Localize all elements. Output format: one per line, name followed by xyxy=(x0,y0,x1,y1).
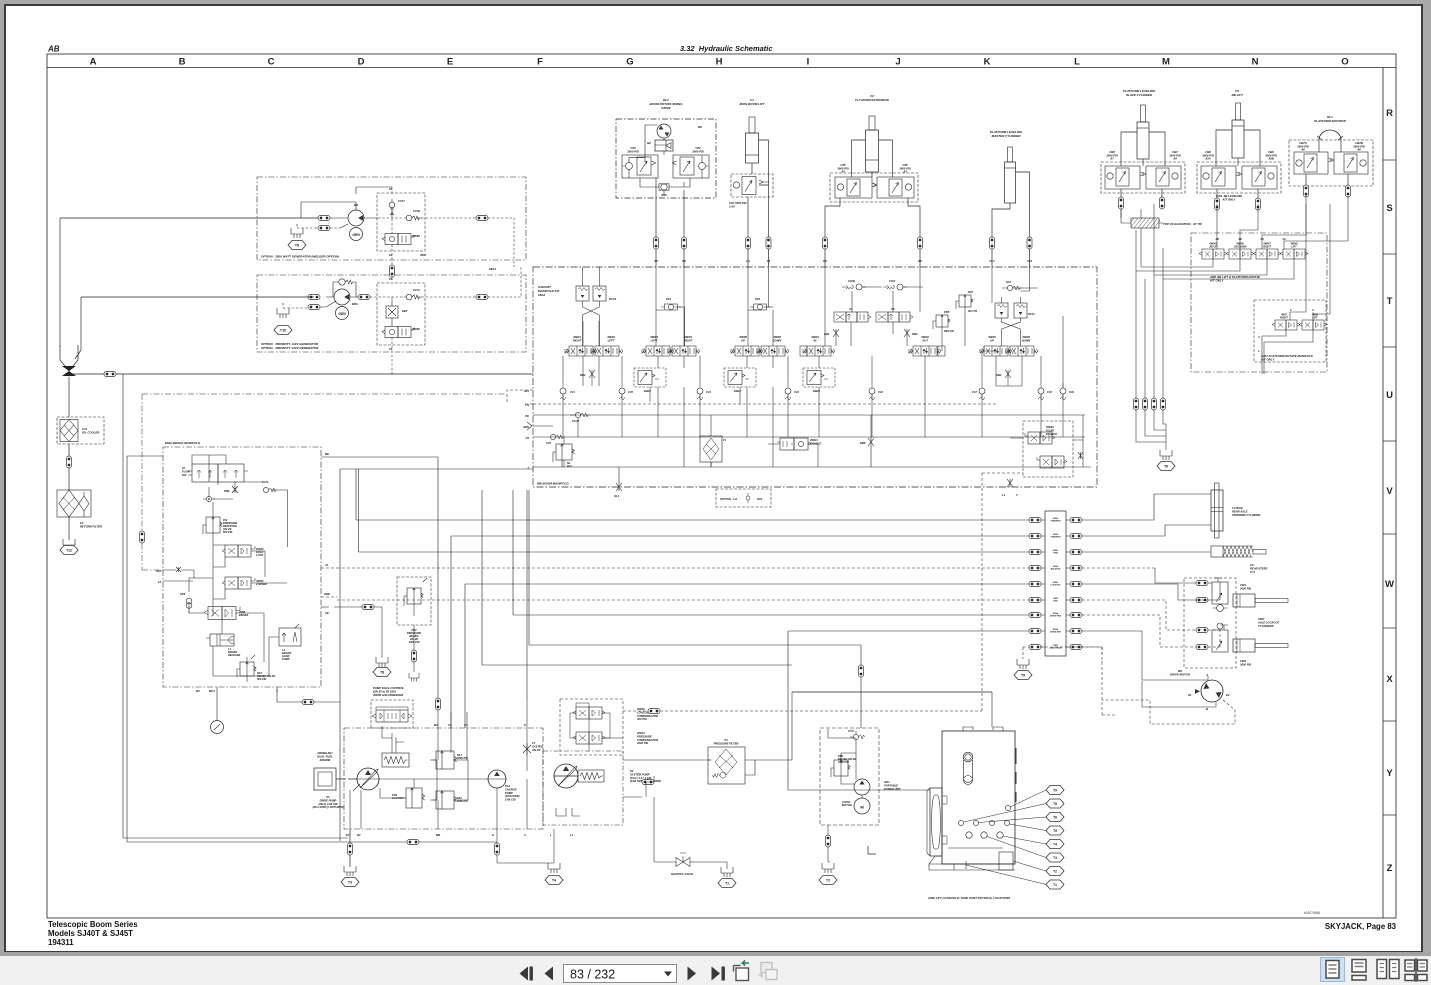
shuttle SV1 xyxy=(661,304,681,310)
svg-text:DB2: DB2 xyxy=(996,373,1002,377)
svg-text:STEERING CYLINDER: STEERING CYLINDER xyxy=(1232,513,1260,517)
port pill xyxy=(1029,518,1041,523)
port pill xyxy=(1070,518,1082,523)
tank foot xyxy=(929,856,954,870)
check C14 xyxy=(697,383,703,400)
svg-text:3W/02: 3W/02 xyxy=(921,335,929,339)
svg-text:ENABLE: ENABLE xyxy=(810,441,821,445)
svg-text:T8: T8 xyxy=(1053,802,1057,806)
svg-text:RELEASE: RELEASE xyxy=(228,653,241,657)
gen check valve sub-block xyxy=(377,187,426,257)
replace-page icon (disabled) xyxy=(758,963,777,980)
tank oval T4b xyxy=(1046,840,1064,849)
wire swing A/B down xyxy=(640,178,690,195)
svg-text:KIT ONLY: KIT ONLY xyxy=(1223,197,1237,201)
port pill xyxy=(495,843,500,855)
option LO enclosure xyxy=(716,489,771,507)
svg-text:A4: A4 xyxy=(902,170,907,174)
svg-text:C19: C19 xyxy=(1069,390,1074,394)
pressure reducing P11 xyxy=(203,517,238,534)
svg-text:A6: A6 xyxy=(1300,148,1305,152)
shuttle SV6 xyxy=(186,595,192,613)
solenoid valve 4W/45 jib up xyxy=(1199,243,1227,260)
port pill xyxy=(358,295,370,300)
svg-text:L1: L1 xyxy=(570,833,574,837)
svg-text:LOCK: LOCK xyxy=(256,553,264,557)
solenoid valve 4W/04 xyxy=(668,346,700,356)
svg-text:LS: LS xyxy=(525,403,529,407)
top of elevation hatch box xyxy=(1131,218,1159,228)
port pill xyxy=(1029,629,1041,634)
port pill xyxy=(654,237,659,249)
emg brake manifold enclosure xyxy=(163,447,321,687)
wire row2 steering B xyxy=(451,536,1029,728)
svg-text:SV1: SV1 xyxy=(666,297,672,301)
main manifold labels xyxy=(537,285,569,486)
svg-text:FL8: FL8 xyxy=(1027,259,1032,263)
tank oval T4 xyxy=(545,876,563,885)
svg-text:T5: T5 xyxy=(1021,674,1025,678)
svg-text:F1: F1 xyxy=(723,438,727,442)
svg-text:B: B xyxy=(179,57,186,68)
brake cylinder L1 xyxy=(206,634,241,657)
engine box xyxy=(314,768,336,790)
svg-text:1500 PSI: 1500 PSI xyxy=(838,760,849,764)
tank fan lines xyxy=(964,790,1046,885)
lockout cylinder CM7a xyxy=(1233,594,1255,607)
check valve CV17 xyxy=(389,202,395,208)
svg-text:SKYJACK, Page 83: SKYJACK, Page 83 xyxy=(1325,922,1397,931)
port pill xyxy=(823,237,828,249)
svg-text:ENABLE: ENABLE xyxy=(1046,432,1057,436)
svg-text:G: G xyxy=(626,57,633,68)
svg-text:C17A: C17A xyxy=(413,288,420,292)
svg-text:OPTION - LO: OPTION - LO xyxy=(720,497,738,501)
wire compensators xyxy=(570,703,623,751)
solenoid valve 4W/03 xyxy=(642,346,674,356)
rotate manifold numbers xyxy=(1258,308,1314,353)
main pump P1 xyxy=(357,768,379,790)
wire TB to T8 xyxy=(334,607,382,658)
brake valve DB20 xyxy=(803,368,835,393)
port pill xyxy=(1070,534,1082,539)
wire to manifold xyxy=(656,249,684,267)
svg-text:RETURN FILTER: RETURN FILTER xyxy=(80,525,102,529)
svg-text:M2: M2 xyxy=(698,125,702,129)
tank ports xyxy=(1005,805,1010,810)
svg-text:P2: P2 xyxy=(630,769,634,773)
svg-text:C10: C10 xyxy=(878,390,883,394)
svg-text:C101: C101 xyxy=(889,279,896,283)
emg AL port right xyxy=(321,567,337,569)
solenoid valve 2W/66 xyxy=(382,327,414,338)
main manifold enclosure xyxy=(533,267,1097,487)
port pill xyxy=(1029,550,1041,555)
svg-text:C9: C9 xyxy=(1250,563,1254,567)
LS bus dashed xyxy=(533,403,998,405)
manifold internal wiring xyxy=(583,267,600,346)
hydraulic motor M2 xyxy=(657,124,671,138)
toolbar separator bar xyxy=(0,952,1431,956)
brake B2 xyxy=(655,140,673,151)
pump M6 xyxy=(348,210,364,226)
port pill xyxy=(318,226,330,231)
svg-text:PUMP: PUMP xyxy=(282,657,290,661)
slave valve block assembly xyxy=(1101,150,1185,193)
jib rotate manifold enclosure xyxy=(1191,233,1327,372)
svg-text:DOWN: DOWN xyxy=(773,338,782,342)
tank oval T10 xyxy=(274,326,292,335)
svg-text:LEFT: LEFT xyxy=(608,338,615,342)
svg-text:T3: T3 xyxy=(348,881,352,885)
svg-text:S5: S5 xyxy=(654,259,658,263)
svg-text:OIL COOLER: OIL COOLER xyxy=(82,431,99,435)
shuttle SV9 xyxy=(661,184,667,190)
port pill xyxy=(990,237,995,249)
svg-text:C11: C11 xyxy=(570,390,575,394)
svg-text:KIT ONLY: KIT ONLY xyxy=(1261,357,1275,361)
svg-text:T9: T9 xyxy=(295,244,299,248)
flow enable block 2W/02 xyxy=(1023,421,1083,477)
svg-text:P2: P2 xyxy=(526,436,530,440)
SPU motor xyxy=(854,798,870,814)
pump dual control label xyxy=(372,686,404,697)
svg-text:C10B: C10B xyxy=(848,279,855,283)
svg-text:T1: T1 xyxy=(725,882,729,886)
tank symbol T5 xyxy=(1017,659,1029,669)
wire row7 drive fwd xyxy=(513,490,1029,615)
LS dashed long xyxy=(623,710,982,712)
port pill xyxy=(918,237,923,249)
check C19 xyxy=(1060,383,1066,400)
port pill xyxy=(1070,645,1082,650)
svg-text:MB: MB xyxy=(436,833,440,837)
check C113 xyxy=(263,487,276,492)
cylinder C5 jib lift xyxy=(1231,89,1244,158)
svg-text:AL6: AL6 xyxy=(155,569,162,573)
pump top ports xyxy=(434,723,526,727)
shutoff valve xyxy=(671,853,693,876)
lockout valve CB1 xyxy=(1212,578,1228,611)
svg-text:UP: UP xyxy=(741,338,745,342)
svg-text:500 PSI: 500 PSI xyxy=(257,677,267,681)
svg-text:D: D xyxy=(358,57,365,68)
next page button xyxy=(688,967,697,981)
port pill xyxy=(1196,581,1208,586)
svg-text:RIGHT: RIGHT xyxy=(573,338,582,342)
SPU wiring xyxy=(828,731,862,862)
disconnect block xyxy=(1045,511,1066,656)
svg-text:PRESSURE: PRESSURE xyxy=(637,734,652,738)
svg-text:REAR AXLE: REAR AXLE xyxy=(1232,509,1248,513)
svg-text:FLOW: FLOW xyxy=(1046,428,1054,432)
brake valve DB10 xyxy=(634,368,666,393)
solenoid valve 4W/08 xyxy=(1006,346,1038,356)
solenoid valve 3W/02 xyxy=(909,346,941,356)
facing continuous view xyxy=(1405,958,1427,982)
hand pump L2 xyxy=(279,624,301,661)
relief N18 xyxy=(237,655,276,681)
rotate manifold wiring xyxy=(1262,204,1330,374)
svg-text:E5: E5 xyxy=(823,259,827,263)
MP2 port stub xyxy=(533,425,553,427)
wire row3 tie rod xyxy=(359,469,1030,552)
svg-text:T: T xyxy=(527,466,529,470)
orifice DB7 xyxy=(386,306,398,318)
svg-text:AL: AL xyxy=(324,563,329,567)
port pill xyxy=(1027,237,1032,249)
svg-text:AXLE LOCKOUT: AXLE LOCKOUT xyxy=(1257,620,1280,624)
svg-text:MG1: MG1 xyxy=(209,689,215,693)
pressure reducing valve PR5 xyxy=(933,310,954,333)
svg-text:M6A: M6A xyxy=(352,302,358,306)
wire option2 out xyxy=(488,267,521,297)
platform rotate sub manifold xyxy=(1254,300,1326,362)
tank symbol T8 xyxy=(376,657,388,667)
tank oval T8 xyxy=(373,668,391,677)
svg-text:(28.2 GPM @ 2675 RPM): (28.2 GPM @ 2675 RPM) xyxy=(313,805,344,809)
solenoid valve 4W/07 xyxy=(980,346,1012,356)
svg-text:K: K xyxy=(984,57,991,68)
wire funnel to manifold xyxy=(69,373,533,375)
svg-text:A5A: A5A xyxy=(1204,157,1211,161)
wire filter to tank xyxy=(68,517,70,540)
svg-text:EMG BRAKE MANIFOLD: EMG BRAKE MANIFOLD xyxy=(165,441,201,445)
steering cylinder C6 xyxy=(1211,490,1223,531)
svg-text:MAIN BOOM LIFT: MAIN BOOM LIFT xyxy=(740,102,766,106)
svg-text:L4: L4 xyxy=(746,259,750,263)
svg-text:CB/2: CB/2 xyxy=(1240,659,1247,663)
option 110/220V generator enclosure xyxy=(257,275,526,352)
svg-text:CM/7: CM/7 xyxy=(1258,617,1265,621)
svg-text:FLY BOOM EXTENSION: FLY BOOM EXTENSION xyxy=(855,98,890,102)
oil cooler C13 xyxy=(57,417,104,444)
svg-text:T4: T4 xyxy=(1053,843,1057,847)
SPU relief valve xyxy=(831,754,857,777)
svg-text:TB: TB xyxy=(325,611,329,615)
port pill xyxy=(1070,582,1082,587)
port pill xyxy=(648,709,660,714)
svg-text:1A: 1A xyxy=(1282,237,1286,241)
lockout cylinder CM7b xyxy=(1233,639,1255,652)
svg-text:T6: T6 xyxy=(1164,465,1168,469)
svg-text:BRAKE: BRAKE xyxy=(239,613,248,617)
svg-text:AL5: AL5 xyxy=(523,389,530,393)
svg-text:DOWN: DOWN xyxy=(1022,338,1031,342)
brake valve 3W/8 xyxy=(204,607,248,620)
orifice DB1 xyxy=(833,329,839,337)
wire row4 AL dashed xyxy=(337,567,1029,569)
relief P1B xyxy=(391,788,425,808)
option welder generator enclosure xyxy=(257,177,526,260)
svg-text:U4: U4 xyxy=(849,307,853,311)
svg-text:3000 PSI: 3000 PSI xyxy=(1240,586,1251,590)
port pill xyxy=(1346,185,1351,197)
check valve C17A xyxy=(406,294,412,300)
svg-text:2: 2 xyxy=(1289,308,1292,312)
svg-text:P3: P3 xyxy=(724,738,728,742)
charge pump P1A xyxy=(488,770,506,788)
solenoid valve U5 xyxy=(876,307,913,322)
option feed dashed vertical xyxy=(142,394,505,570)
port pill xyxy=(436,698,441,710)
svg-text:2W/66: 2W/66 xyxy=(411,327,420,331)
wire T5 xyxy=(1023,647,1029,659)
orifice DB8 xyxy=(868,438,874,467)
svg-text:2W/42: 2W/42 xyxy=(636,707,645,711)
svg-text:COMPENSATOR: COMPENSATOR xyxy=(637,714,658,718)
svg-text:L8: L8 xyxy=(767,259,771,263)
svg-text:A8: A8 xyxy=(1172,157,1177,161)
svg-text:T2: T2 xyxy=(1053,870,1057,874)
svg-text:D1: D1 xyxy=(346,833,350,837)
svg-text:4W/56 w/FLOWMAKER: 4W/56 w/FLOWMAKER xyxy=(372,693,403,697)
svg-text:2WD: 2WD xyxy=(1052,601,1058,603)
pressure gauge xyxy=(216,687,218,720)
check C10 xyxy=(869,383,875,400)
AL5 dashed stub xyxy=(507,390,533,404)
pump control enclosure xyxy=(371,700,413,728)
svg-text:T6: T6 xyxy=(1053,816,1057,820)
svg-text:4: 4 xyxy=(1311,308,1314,312)
svg-text:2-SPEED: 2-SPEED xyxy=(255,582,267,586)
proportional control valve xyxy=(372,707,412,722)
emg TB port right xyxy=(321,606,329,608)
svg-text:D2: D2 xyxy=(1226,693,1230,697)
svg-text:RIGHT: RIGHT xyxy=(684,338,693,342)
svg-text:T5: T5 xyxy=(1053,829,1057,833)
svg-text:N: N xyxy=(1252,57,1259,68)
svg-text:CB/1: CB/1 xyxy=(1240,583,1247,587)
solenoid valve 4W/05 xyxy=(731,346,763,356)
svg-text:A: A xyxy=(523,833,526,837)
svg-text:MOTOR: MOTOR xyxy=(842,803,852,807)
svg-text:G01: G01 xyxy=(757,497,763,501)
tank symbol T12 xyxy=(63,539,75,549)
svg-text:SLAVE CYLINDER: SLAVE CYLINDER xyxy=(1126,93,1153,97)
svg-text:B: B xyxy=(1206,707,1208,711)
port pill xyxy=(1029,645,1041,650)
svg-text:N15: N15 xyxy=(968,290,973,294)
return filter F2 xyxy=(57,490,91,517)
jib manifold label xyxy=(1209,275,1260,282)
svg-text:REAR STEER: REAR STEER xyxy=(1250,566,1267,570)
wire case drain dashed xyxy=(1040,647,1115,715)
wire to manifold xyxy=(825,249,920,267)
wire between options xyxy=(391,266,393,280)
svg-text:REG PR: REG PR xyxy=(944,330,954,333)
tank symbol T8b xyxy=(409,673,419,682)
svg-text:F: F xyxy=(537,57,543,68)
svg-text:IN: IN xyxy=(814,338,817,342)
solenoid valve 4W/48 left xyxy=(1280,243,1308,260)
svg-text:A7: A7 xyxy=(1109,157,1114,161)
port pill xyxy=(826,835,831,847)
svg-text:OUT: OUT xyxy=(922,338,928,342)
wire drive motor xyxy=(1082,631,1216,707)
svg-text:C7/4: C7/4 xyxy=(848,729,854,733)
svg-text:83 / 232: 83 / 232 xyxy=(570,968,615,982)
svg-text:S: S xyxy=(492,833,494,837)
port pill xyxy=(1029,582,1041,587)
port pill xyxy=(1070,613,1082,618)
svg-text:P1A: P1A xyxy=(505,784,510,788)
svg-text:P1: P1 xyxy=(326,795,330,799)
solenoid valve 4W/06 xyxy=(757,346,789,356)
jib valve block assembly xyxy=(1197,150,1281,201)
tank symbol T2 xyxy=(822,863,834,873)
option generator labels xyxy=(261,342,319,350)
port pill xyxy=(1304,185,1309,197)
svg-text:GL1: GL1 xyxy=(614,494,620,498)
cylinder C1 main boom lift xyxy=(740,98,766,163)
svg-text:LOCKOUT: LOCKOUT xyxy=(1051,585,1062,587)
compensator block xyxy=(560,699,623,755)
system pump P2 xyxy=(554,764,578,788)
svg-text:T3: T3 xyxy=(1053,856,1057,860)
tank symbol T9 drain xyxy=(291,228,303,238)
tank oval T9b xyxy=(1046,786,1064,795)
tank oval T8b xyxy=(1046,799,1064,808)
port pill xyxy=(1029,613,1041,618)
P2 bus xyxy=(533,436,1085,438)
svg-text:FL4: FL4 xyxy=(990,259,995,263)
svg-text:A: A xyxy=(1205,673,1208,677)
port pill xyxy=(1196,598,1208,603)
brake valve DB12 xyxy=(724,368,756,393)
lockout enclosure xyxy=(1184,578,1236,668)
svg-text:LEFT: LEFT xyxy=(651,338,658,342)
svg-text:GEN: GEN xyxy=(352,233,360,237)
wire jib cyl xyxy=(1216,130,1260,199)
solenoid valve 2W/65 xyxy=(382,234,414,245)
tank symbol T6 xyxy=(1160,450,1172,460)
svg-text:U: U xyxy=(1386,390,1393,401)
drain T mark xyxy=(1007,479,1013,487)
svg-text:SPU: SPU xyxy=(884,780,889,784)
svg-text:AB: AB xyxy=(47,45,60,54)
svg-text:MB BOOM MANIFOLD: MB BOOM MANIFOLD xyxy=(537,482,569,486)
wire rotator xyxy=(1306,140,1348,186)
svg-text:SV6: SV6 xyxy=(180,592,186,596)
wire filter to tank run xyxy=(792,692,992,727)
svg-text:ANSI LIFT HYDRAULIC TANK PORT: ANSI LIFT HYDRAULIC TANK PORT PHYSICAL L… xyxy=(927,896,1010,900)
sight glass bracket xyxy=(930,788,942,856)
port pill xyxy=(308,305,320,310)
orifice DB4 xyxy=(904,329,910,337)
port pill xyxy=(1070,550,1082,555)
svg-text:3W/01: 3W/01 xyxy=(811,335,819,339)
svg-text:SHUTOFF VALVE: SHUTOFF VALVE xyxy=(671,872,693,876)
svg-text:TIRE: TIRE xyxy=(1053,553,1058,555)
port pill xyxy=(1215,198,1220,210)
svg-text:4W/08: 4W/08 xyxy=(1021,335,1030,339)
check C15 xyxy=(619,383,625,400)
emg internal wiring xyxy=(189,455,288,682)
solenoid valve 3W/01 xyxy=(803,346,835,356)
port pill xyxy=(67,456,72,468)
port pill xyxy=(362,605,374,610)
system check valve L5 xyxy=(523,743,531,755)
port pill xyxy=(859,665,864,677)
pump servo xyxy=(382,753,409,767)
holding valve block C1 xyxy=(729,174,773,208)
port pill xyxy=(1070,629,1082,634)
corner bracket xyxy=(868,846,876,854)
engine label xyxy=(317,751,333,762)
svg-text:CYL: CYL xyxy=(1250,570,1256,574)
svg-text:STEERING: STEERING xyxy=(1050,521,1061,523)
